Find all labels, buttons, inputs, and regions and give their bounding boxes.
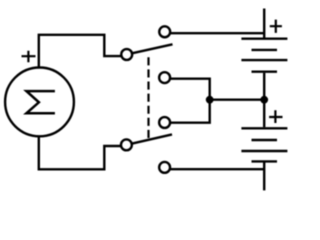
switch S1b pole contact (121, 139, 132, 150)
node A junction dot (260, 96, 268, 104)
wire (source bottom to switch S1b pole) (39, 137, 121, 170)
wire (throw S1b bottom to battery B2 -) (170, 168, 264, 170)
summing source U1 (5, 68, 74, 137)
switch S1a throw contact bottom (159, 72, 170, 83)
battery B1 (241, 39, 287, 72)
polarity + (source) (22, 51, 36, 62)
wire (node B to node A) (210, 98, 265, 100)
wire (node A to battery B2 +) (263, 100, 265, 127)
battery B2 (241, 128, 287, 161)
wire (battery B2 - terminal down) (263, 163, 265, 191)
switch S1b throw contact top (159, 117, 170, 128)
wire (source top to switch S1a pole) (39, 35, 121, 67)
sigma symbol (26, 91, 55, 113)
switch S1a throw contact top (159, 26, 170, 37)
wire (throw top to battery B1 +) (170, 32, 264, 34)
wire (battery B1 - to node A) (263, 73, 265, 100)
switch S1b blade (131, 134, 172, 143)
mechanical link (ganged switches, dashed) (147, 57, 149, 138)
switch S1a blade (131, 44, 173, 53)
switch S1a pole contact (121, 49, 132, 60)
switch S1b throw contact bottom (159, 162, 170, 173)
wire (battery B1 top terminal) (263, 9, 265, 38)
node B junction dot (206, 96, 214, 104)
polarity + (battery B2) (269, 110, 282, 123)
wire (middle throws to node B) (170, 79, 210, 123)
polarity + (battery B1) (270, 20, 282, 33)
